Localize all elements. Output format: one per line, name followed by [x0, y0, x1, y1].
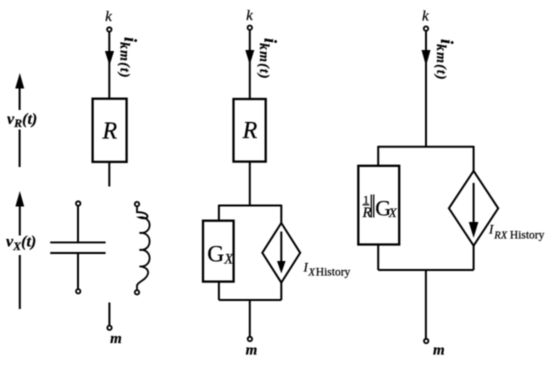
- svg-text:X: X: [388, 205, 398, 220]
- svg-text:RX: RX: [493, 231, 507, 242]
- svg-text:I: I: [488, 222, 494, 237]
- svg-text:m: m: [246, 343, 258, 359]
- svg-text:ikm(t): ikm(t): [256, 38, 280, 80]
- svg-text:R: R: [362, 205, 372, 221]
- svg-text:R: R: [101, 119, 117, 145]
- svg-text:History: History: [510, 230, 545, 242]
- svg-text:ikm(t): ikm(t): [116, 37, 140, 79]
- svg-text:k: k: [422, 9, 429, 25]
- svg-text:R: R: [242, 118, 258, 144]
- svg-text:History: History: [316, 267, 351, 279]
- svg-text:k: k: [105, 9, 112, 25]
- svg-text:X: X: [308, 268, 316, 279]
- svg-text:vX(t): vX(t): [6, 234, 36, 253]
- svg-text:ikm(t): ikm(t): [433, 39, 457, 81]
- svg-text:vR(t): vR(t): [7, 111, 37, 130]
- svg-text:m: m: [433, 343, 445, 359]
- svg-text:m: m: [110, 331, 122, 347]
- svg-text:k: k: [246, 8, 253, 24]
